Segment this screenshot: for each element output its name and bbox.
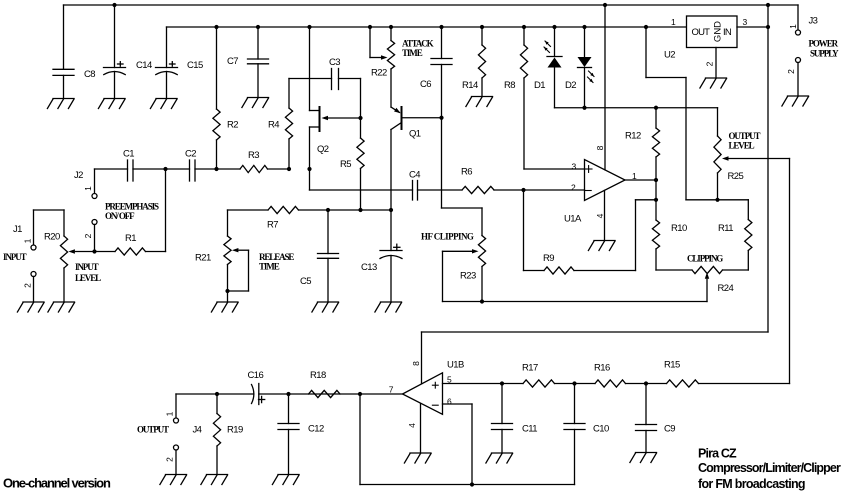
wire clip bottom bus	[443, 301, 708, 303]
svg-text:INPUT: INPUT	[75, 262, 99, 272]
label D1	[534, 80, 545, 91]
label D2	[565, 80, 576, 91]
svg-text:7: 7	[389, 385, 394, 395]
label INPUT LEVEL	[75, 262, 101, 283]
capacitor C13	[380, 210, 402, 302]
svg-text:J3: J3	[809, 16, 818, 27]
svg-text:1: 1	[788, 24, 798, 29]
svg-text:C7: C7	[227, 56, 238, 67]
svg-text:R21: R21	[195, 253, 211, 264]
node C10 top junction	[572, 381, 576, 385]
wire J2 to C1	[95, 168, 128, 170]
wire C2 to R3	[195, 168, 217, 170]
resistor R16	[575, 380, 647, 387]
svg-text:CLIPPING: CLIPPING	[687, 254, 723, 264]
svg-text:TIME: TIME	[259, 262, 280, 272]
label RELEASE TIME	[259, 252, 294, 272]
label R3	[248, 150, 259, 161]
svg-text:C3: C3	[329, 57, 340, 68]
label R2	[227, 120, 238, 131]
wire C4 to R6	[418, 189, 463, 191]
wire J2 top	[94, 169, 96, 194]
svg-text:J4: J4	[193, 425, 202, 436]
label C16	[248, 370, 264, 381]
wire U1A pin8	[604, 5, 606, 170]
potentiometer R25	[714, 108, 790, 200]
resistor R2	[213, 27, 220, 169]
ground J1	[17, 302, 44, 312]
node top-rail U1A-pin8 junction	[603, 3, 607, 7]
label pin 2	[571, 183, 576, 193]
node rail2 D1 junction	[552, 25, 556, 29]
svg-text:4: 4	[595, 213, 605, 218]
svg-text:IN: IN	[723, 27, 732, 38]
svg-text:LEVEL: LEVEL	[729, 141, 755, 151]
svg-text:C2: C2	[185, 149, 196, 160]
svg-text:2: 2	[23, 283, 33, 288]
resistor R8	[520, 27, 527, 169]
label U1B pin8	[411, 361, 421, 366]
label Pira CZ	[698, 447, 737, 461]
svg-text:TIME: TIME	[402, 48, 423, 58]
svg-text:POWER: POWER	[809, 38, 839, 48]
svg-text:Pira CZ: Pira CZ	[698, 447, 737, 461]
label J2	[74, 170, 83, 181]
label C6	[420, 79, 431, 90]
label U1B pin6	[447, 396, 452, 406]
node rail2 R22 top junction	[389, 25, 393, 29]
svg-text:1: 1	[671, 17, 676, 27]
connector J2 pin1	[92, 194, 97, 199]
svg-text:2: 2	[571, 183, 576, 193]
svg-text:C6: C6	[420, 79, 431, 90]
node D2 bottom junction	[582, 106, 586, 110]
wire U1B pin6	[443, 404, 473, 485]
label C5	[300, 276, 311, 287]
svg-text:R18: R18	[310, 370, 326, 381]
label U2	[664, 50, 675, 61]
label U2 OUT	[692, 27, 711, 38]
label CLIPPING	[687, 254, 723, 264]
node rail2 R22 left junction	[368, 25, 372, 29]
label U2 pin2	[705, 61, 715, 66]
ground J4	[160, 475, 187, 485]
node R18 right junction	[358, 392, 362, 396]
label pin 1	[632, 171, 637, 181]
svg-text:Q2: Q2	[317, 144, 329, 155]
op-amp U1B	[403, 373, 443, 415]
ground C11	[486, 453, 513, 463]
wire clip node B	[686, 199, 748, 201]
ground C12	[272, 475, 299, 485]
node R19 top junction	[215, 392, 219, 396]
label J3	[809, 16, 818, 27]
svg-text:R16: R16	[594, 363, 610, 374]
label J2 pin1	[83, 186, 93, 191]
label HF CLIPPING	[421, 232, 474, 242]
connector J4 pin2	[174, 445, 179, 450]
label R7	[267, 220, 278, 231]
svg-text:2: 2	[83, 233, 93, 238]
label R18	[310, 370, 326, 381]
label C13	[361, 262, 377, 273]
label R4	[268, 120, 279, 131]
label Compressor/Limiter/Clipper	[698, 461, 841, 475]
svg-text:8: 8	[411, 361, 421, 366]
node Q2 gate junction	[358, 116, 362, 120]
wire C1C2 to R1	[165, 169, 167, 252]
svg-text:One-channel version: One-channel version	[3, 476, 111, 491]
wire U2 pin3	[737, 26, 768, 28]
connector J4 pin1	[174, 418, 179, 423]
svg-text:R17: R17	[522, 363, 538, 374]
svg-text:ATTACK: ATTACK	[402, 39, 434, 49]
svg-text:Compressor/Limiter/Clipper: Compressor/Limiter/Clipper	[698, 461, 841, 475]
svg-text:C4: C4	[409, 170, 420, 181]
potentiometer R21	[224, 210, 249, 302]
resistor R7	[228, 206, 329, 213]
connector J3 pin2	[796, 58, 801, 63]
svg-text:U1B: U1B	[447, 360, 464, 371]
label OUTPUT	[137, 425, 169, 435]
wire output bus left	[176, 393, 254, 395]
label R1	[125, 233, 136, 244]
ground U1B	[404, 453, 431, 463]
resistor R10	[652, 200, 659, 270]
node rail2 C7 junction	[256, 25, 260, 29]
resistor R11	[745, 200, 752, 270]
label R25	[728, 171, 744, 182]
node rail2 U2 tap junction	[644, 25, 648, 29]
label J3 pin2	[786, 69, 796, 74]
label U2 IN	[723, 27, 732, 38]
wire U1B pin5	[443, 383, 503, 385]
wire output bus right	[259, 393, 360, 395]
wire R21 wiper	[228, 250, 249, 291]
label U2 GND	[713, 21, 724, 42]
regulator U2 box	[687, 16, 738, 48]
label pin 3	[572, 162, 577, 172]
svg-text:R6: R6	[461, 167, 472, 178]
label C3	[329, 57, 340, 68]
label J4 pin2	[165, 457, 175, 462]
label U1B pin7	[389, 385, 394, 395]
label pin 4	[595, 213, 605, 218]
svg-text:R11: R11	[718, 223, 733, 234]
resistor R14	[478, 27, 485, 97]
wire C1 to C2	[133, 168, 190, 170]
label J1	[13, 224, 22, 235]
ground C15	[150, 99, 177, 109]
node feedback pin6 junction	[470, 482, 474, 486]
wire U2 out tap	[646, 27, 686, 200]
svg-text:R10: R10	[671, 223, 687, 234]
svg-text:C16: C16	[248, 370, 264, 381]
potentiometer R20	[60, 210, 94, 302]
svg-text:C8: C8	[84, 69, 95, 80]
capacitor C6	[431, 27, 452, 118]
label R8	[504, 80, 515, 91]
label R6	[461, 167, 472, 178]
wire J4 pin1	[175, 394, 177, 418]
label R24	[718, 283, 734, 294]
wire U1B feedback	[360, 394, 575, 485]
resistor R9	[524, 190, 657, 274]
label J2 pin2	[83, 233, 93, 238]
label J1 pin2	[23, 283, 33, 288]
capacitor C9	[636, 384, 657, 453]
ground C8	[47, 99, 74, 109]
ground C9	[630, 453, 657, 463]
label Q2	[317, 144, 329, 155]
svg-text:OUTPUT: OUTPUT	[729, 131, 761, 141]
potentiometer R22	[370, 27, 395, 107]
capacitor C2	[190, 160, 196, 181]
resistor R17	[502, 380, 575, 387]
label C15	[187, 60, 203, 71]
wire R6 to pin2	[494, 189, 524, 191]
wire right supply rail	[422, 5, 769, 384]
label J1 pin1	[23, 238, 33, 243]
node rail2 Q2 drain junction	[307, 25, 311, 29]
ground C14	[98, 99, 125, 109]
svg-text:C11: C11	[522, 424, 537, 435]
node C11 top junction	[500, 381, 504, 385]
wire J2 pin2 down	[94, 225, 96, 252]
node C1-C2 junction	[163, 167, 167, 171]
svg-text:R19: R19	[227, 425, 243, 436]
capacitor C1	[128, 160, 134, 181]
wire second supply rail	[167, 26, 687, 28]
node rail2 C6 junction	[439, 25, 443, 29]
label C14	[136, 60, 152, 71]
connector J1 pin2	[31, 272, 36, 277]
svg-text:R7: R7	[267, 220, 278, 231]
wire C3 left	[289, 78, 332, 80]
node R25 bottom junction	[715, 198, 719, 202]
label OUTPUT LEVEL	[729, 131, 761, 151]
resistor R3	[217, 165, 290, 172]
label C2	[185, 149, 196, 160]
svg-text:PREEMPHASIS: PREEMPHASIS	[105, 202, 159, 212]
svg-text:R24: R24	[718, 283, 734, 294]
node R21 bottom junction	[225, 289, 229, 293]
resistor R15	[646, 380, 699, 387]
wire Q2 source to C4	[310, 189, 413, 191]
label R22	[371, 68, 387, 79]
svg-text:2: 2	[786, 69, 796, 74]
svg-text:3: 3	[743, 17, 748, 27]
svg-text:R1: R1	[125, 233, 136, 244]
label R9	[543, 253, 554, 264]
ground C13	[375, 302, 402, 312]
label ATTACK TIME	[402, 39, 434, 59]
wire U2 pin2	[715, 48, 717, 79]
label pin 8	[595, 145, 605, 150]
svg-text:GND: GND	[713, 21, 724, 42]
wire J3 pin2 gnd	[797, 63, 799, 97]
label POWER SUPPLY	[809, 38, 840, 58]
node clip node A junction	[654, 198, 658, 202]
svg-text:J1: J1	[13, 224, 22, 235]
wire U1A pin3	[524, 168, 585, 170]
diode D2	[578, 27, 595, 108]
svg-text:R12: R12	[625, 131, 641, 142]
node R1 left junction	[92, 249, 96, 253]
label R5	[340, 159, 351, 170]
label R16	[594, 363, 610, 374]
wire J4 pin2 gnd	[175, 450, 177, 475]
label C10	[593, 424, 609, 435]
ground R19	[201, 475, 228, 485]
label J3 pin1	[788, 24, 798, 29]
svg-text:1: 1	[632, 171, 637, 181]
label One-channel version	[3, 476, 111, 491]
svg-text:1: 1	[83, 186, 93, 191]
svg-text:R3: R3	[248, 150, 259, 161]
potentiometer R24	[656, 266, 748, 301]
svg-text:C1: C1	[123, 149, 134, 160]
svg-text:6: 6	[447, 396, 452, 406]
wire C6 to R23	[442, 118, 483, 208]
resistor R19	[213, 394, 220, 475]
wire U1A pin1	[625, 179, 656, 181]
node R5 bottom junction	[358, 208, 362, 212]
svg-text:C10: C10	[593, 424, 609, 435]
svg-text:R5: R5	[340, 159, 351, 170]
svg-text:R2: R2	[227, 120, 238, 131]
wire U1B pin7	[360, 393, 403, 395]
resistor R1	[95, 248, 166, 255]
wire pin1 to clip node	[655, 180, 657, 200]
ground R20	[48, 302, 75, 312]
label R23	[460, 271, 476, 282]
wire top supply rail	[64, 4, 799, 6]
wire Q2 source down	[309, 169, 311, 190]
label C11	[522, 424, 537, 435]
label Q1	[409, 129, 421, 140]
svg-text:R9: R9	[543, 253, 554, 264]
wire J1 pin2 gnd	[33, 277, 35, 303]
wire J1-R20 top	[34, 210, 65, 245]
node rail2 R14 junction	[480, 25, 484, 29]
wire R23 wiper	[442, 251, 444, 301]
label C7	[227, 56, 238, 67]
svg-text:D1: D1	[534, 80, 545, 91]
ground U2	[700, 78, 727, 88]
wire U1B pin4	[420, 404, 422, 453]
transistor Q1	[391, 107, 442, 210]
capacitor C3	[332, 69, 339, 90]
svg-text:R20: R20	[44, 232, 60, 243]
ground R14	[466, 97, 493, 107]
label for FM broadcasting	[698, 477, 805, 491]
svg-text:1: 1	[23, 238, 33, 243]
node top-rail C14 junction	[112, 3, 116, 7]
ground U1A pin4	[588, 241, 615, 251]
capacitor C12	[278, 394, 299, 475]
capacitor C16	[252, 384, 265, 405]
ground C5	[312, 302, 339, 312]
node U2 pin3 junction	[766, 25, 770, 29]
label R19	[227, 425, 243, 436]
node R3-R2 junction	[214, 167, 218, 171]
svg-text:U2: U2	[664, 50, 675, 61]
svg-text:C5: C5	[300, 276, 311, 287]
svg-text:8: 8	[595, 145, 605, 150]
capacitor C15	[156, 27, 178, 99]
label R20	[44, 232, 60, 243]
connector J2 pin2	[92, 220, 97, 225]
svg-text:R22: R22	[371, 68, 387, 79]
label J4	[193, 425, 202, 436]
label U1B pin5	[447, 375, 452, 385]
label R11	[718, 223, 733, 234]
label C1	[123, 149, 134, 160]
svg-text:SUPPLY: SUPPLY	[810, 48, 839, 58]
svg-text:2: 2	[705, 61, 715, 66]
ground J3	[782, 96, 809, 106]
svg-text:RELEASE: RELEASE	[259, 252, 294, 262]
node C5 top junction	[326, 208, 330, 212]
capacitor C8	[53, 5, 74, 99]
node C6-Q1 base junction	[439, 116, 443, 120]
capacitor C4	[413, 181, 418, 201]
svg-text:D2: D2	[565, 80, 576, 91]
svg-text:C14: C14	[136, 60, 152, 71]
label U1B pin4	[407, 423, 417, 428]
ground R21	[211, 302, 238, 312]
svg-text:C12: C12	[308, 424, 324, 435]
node R23 bottom junction	[480, 299, 484, 303]
svg-text:for FM broadcasting: for FM broadcasting	[698, 477, 805, 491]
svg-text:R25: R25	[728, 171, 744, 182]
svg-text:R4: R4	[268, 120, 279, 131]
resistor R12	[652, 108, 659, 180]
connector J3 pin1	[796, 30, 801, 35]
label U1A	[564, 214, 582, 225]
potentiometer R23	[443, 208, 486, 302]
node R3-R4 junction	[287, 167, 291, 171]
node C13 top junction	[389, 208, 393, 212]
wire R25 wiper to R15	[699, 159, 790, 384]
wire U1A pin4	[604, 190, 606, 240]
capacitor C7	[248, 27, 269, 98]
node R3-Q2 junction	[307, 167, 311, 171]
capacitor C5	[318, 210, 339, 302]
capacitor C14	[104, 5, 126, 99]
label R14	[462, 80, 478, 91]
svg-text:C9: C9	[664, 424, 675, 435]
svg-text:OUT: OUT	[692, 27, 711, 38]
label R21	[195, 253, 211, 264]
svg-text:INPUT: INPUT	[3, 252, 27, 262]
label R10	[671, 223, 687, 234]
ground C7	[242, 98, 269, 108]
svg-text:U1A: U1A	[564, 214, 582, 225]
svg-text:C13: C13	[361, 262, 377, 273]
wire control node	[328, 209, 391, 211]
label C4	[409, 170, 420, 181]
node U1A pin2 junction	[521, 188, 525, 192]
svg-text:Q1: Q1	[409, 129, 421, 140]
label U2 pin3	[743, 17, 748, 27]
label C8	[84, 69, 95, 80]
svg-text:LEVEL: LEVEL	[75, 273, 101, 283]
transistor Q2	[310, 27, 361, 169]
label U1B	[447, 360, 464, 371]
label U2 pin1	[671, 17, 676, 27]
